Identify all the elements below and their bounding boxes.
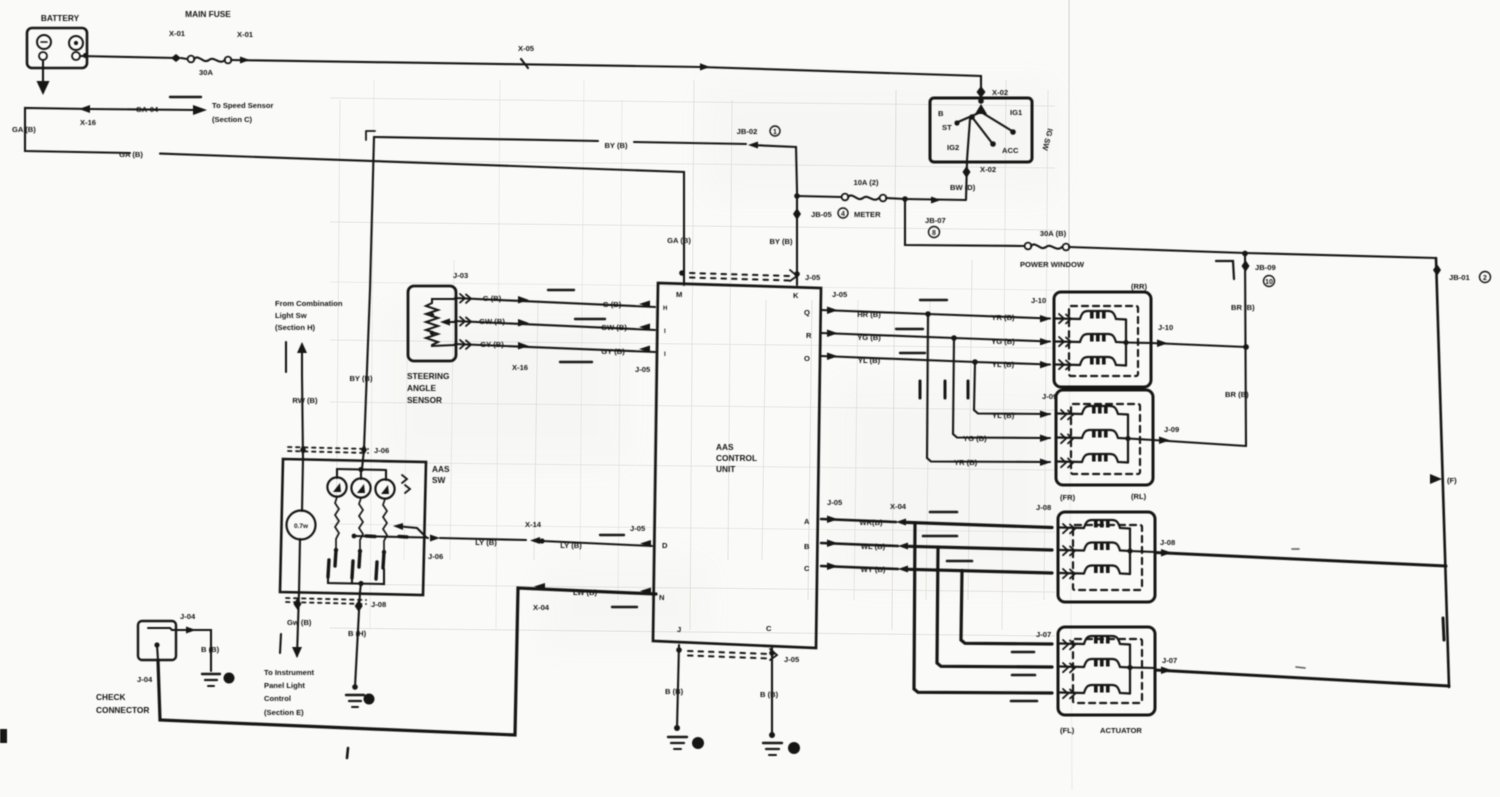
- AAS control unit: [630, 270, 848, 664]
- connector X-02 diamond at switch top: [977, 86, 1009, 98]
- wire B (B) ground left under control unit: [665, 645, 704, 749]
- svg-text:4: 4: [841, 211, 845, 218]
- svg-text:WR(B): WR(B): [859, 518, 883, 527]
- svg-text:HR (B): HR (B): [857, 310, 881, 319]
- junction arrow on B+ wire: [700, 63, 710, 70]
- main fuse MAIN FUSE 30A: [169, 9, 254, 77]
- wire junction to BW: [905, 197, 966, 238]
- svg-text:J-03: J-03: [453, 271, 468, 280]
- wire J-09 exit: [1153, 425, 1246, 446]
- svg-text:To Instrument: To Instrument: [264, 668, 315, 677]
- crease ticks: [920, 381, 968, 398]
- svg-text:STEERING: STEERING: [407, 371, 449, 381]
- svg-text:J-05: J-05: [832, 290, 848, 299]
- svg-text:AAS: AAS: [432, 464, 450, 474]
- svg-text:10: 10: [1265, 279, 1273, 286]
- wire right-edge vertical down: [1430, 258, 1457, 687]
- node From Combination Light Sw: [275, 299, 343, 459]
- svg-text:K: K: [793, 291, 799, 300]
- svg-text:IG1: IG1: [1010, 108, 1023, 117]
- svg-text:1: 1: [773, 129, 777, 136]
- wires sensor to control unit G/GW/GY: [455, 290, 655, 374]
- svg-text:J-05: J-05: [784, 655, 800, 664]
- svg-text:BY (B): BY (B): [604, 141, 628, 150]
- svg-text:X-16: X-16: [80, 118, 96, 127]
- svg-text:Q: Q: [804, 308, 810, 317]
- indicator lamps: [362, 449, 364, 469]
- svg-text:YR (B): YR (B): [991, 313, 1015, 322]
- svg-text:J: J: [677, 625, 681, 634]
- svg-text:LW (B): LW (B): [573, 588, 598, 597]
- svg-text:X-04: X-04: [533, 603, 550, 612]
- wire J-07 exit (bold): [1155, 656, 1449, 686]
- svg-text:JB-07: JB-07: [925, 216, 946, 225]
- wire main B+ run to ignition switch: [231, 60, 981, 97]
- wire YL cross-down to RL: [974, 362, 1051, 420]
- node speed-sensor branch: [79, 97, 274, 127]
- wire YL (B) pin O: [821, 353, 1051, 370]
- svg-text:WL (B): WL (B): [861, 542, 886, 551]
- svg-text:YG (B): YG (B): [963, 434, 987, 443]
- svg-text:M: M: [676, 290, 682, 299]
- svg-text:J-05: J-05: [827, 498, 843, 507]
- svg-text:MAIN FUSE: MAIN FUSE: [185, 9, 231, 19]
- svg-text:METER: METER: [854, 210, 881, 219]
- svg-text:J-08: J-08: [1160, 538, 1175, 547]
- wire WL (B) pin B (bold): [821, 536, 1052, 667]
- svg-text:CONTROL: CONTROL: [716, 453, 757, 463]
- svg-text:YG (B): YG (B): [991, 337, 1015, 346]
- battery negative down arrow: [37, 61, 50, 95]
- wire GW (B) to instrument panel light: [264, 592, 315, 717]
- wire power window run to right edge: [1069, 247, 1436, 258]
- wire RW (B) down to AAS sw: [302, 375, 303, 459]
- wire BY vertical to control unit pin K: [769, 190, 801, 285]
- svg-text:(Section H): (Section H): [275, 323, 316, 332]
- svg-text:N: N: [659, 593, 664, 602]
- actuator FL box: [1036, 627, 1155, 735]
- svg-text:8: 8: [932, 230, 936, 237]
- svg-text:GA (B): GA (B): [667, 236, 691, 245]
- wire GA (B) from left edge: [12, 108, 691, 285]
- svg-text:SW: SW: [432, 475, 446, 485]
- svg-text:(Section C): (Section C): [212, 115, 253, 124]
- lamp 0.7w: [287, 511, 316, 540]
- svg-text:J-04: J-04: [180, 612, 196, 621]
- svg-text:BW (D): BW (D): [950, 183, 976, 192]
- svg-text:C: C: [766, 624, 772, 633]
- wire B (B) AAS sw ground: [346, 592, 375, 707]
- svg-text:(FR): (FR): [1060, 493, 1076, 502]
- svg-text:2: 2: [1483, 275, 1487, 282]
- svg-text:X-16: X-16: [512, 363, 528, 372]
- interior wire to pin D: [354, 536, 426, 538]
- wire WR (B) pin A (bold): [821, 502, 1052, 693]
- svg-text:ACTUATOR: ACTUATOR: [1100, 726, 1142, 735]
- svg-text:G (B): G (B): [483, 294, 502, 303]
- svg-text:(Section E): (Section E): [264, 708, 304, 717]
- svg-text:Control: Control: [264, 694, 291, 703]
- svg-text:AAS: AAS: [716, 442, 734, 452]
- check connector: [96, 612, 235, 715]
- svg-text:X-01: X-01: [237, 30, 254, 39]
- svg-text:YG (B): YG (B): [857, 333, 881, 342]
- svg-text:X-05: X-05: [518, 44, 535, 53]
- svg-text:(F): (F): [1447, 476, 1457, 485]
- svg-text:30A: 30A: [199, 68, 213, 77]
- svg-text:10A (2): 10A (2): [853, 178, 879, 187]
- svg-text:JB-09: JB-09: [1255, 263, 1276, 272]
- svg-text:ANGLE: ANGLE: [407, 383, 437, 393]
- svg-text:B (B): B (B): [665, 687, 684, 696]
- AAS switch box: [280, 444, 450, 609]
- fuse 10A (2) METER: [797, 178, 908, 219]
- wire WY (B) pin C (bold): [821, 561, 1052, 644]
- left edge artifact: [0, 729, 7, 743]
- svg-text:(RL): (RL): [1131, 492, 1147, 501]
- svg-text:J-10: J-10: [1158, 323, 1173, 332]
- svg-text:C: C: [804, 564, 810, 573]
- svg-text:Gw (B): Gw (B): [287, 618, 312, 627]
- svg-text:G (B): G (B): [603, 300, 622, 309]
- connector J-05 dashed top: [690, 273, 790, 281]
- svg-text:JB-05: JB-05: [811, 210, 832, 219]
- svg-text:J-06: J-06: [428, 552, 443, 561]
- svg-text:JB-01: JB-01: [1449, 273, 1470, 282]
- svg-text:J-07: J-07: [1036, 630, 1051, 639]
- wire down to power window fuse: [905, 199, 1024, 246]
- svg-text:UNIT: UNIT: [716, 464, 735, 474]
- wire BR (B) vertical: [1225, 253, 1255, 446]
- svg-text:J-05: J-05: [805, 273, 821, 282]
- svg-text:GA (B): GA (B): [119, 150, 143, 159]
- svg-text:J-09: J-09: [1164, 425, 1179, 434]
- svg-text:J-05: J-05: [635, 365, 651, 374]
- connector J-08 dashed bottom: [286, 598, 366, 604]
- svg-text:J-05: J-05: [630, 524, 646, 533]
- svg-text:RW (B): RW (B): [292, 396, 318, 405]
- svg-text:30A (B): 30A (B): [1040, 229, 1067, 238]
- svg-text:X-04: X-04: [890, 502, 907, 511]
- svg-text:YR (B): YR (B): [954, 458, 978, 467]
- node BR branch: [1216, 251, 1276, 287]
- svg-text:BY (B): BY (B): [349, 374, 373, 383]
- svg-text:J-07: J-07: [1162, 656, 1177, 665]
- svg-text:BR (B): BR (B): [1225, 390, 1249, 399]
- svg-text:J-04: J-04: [137, 675, 153, 684]
- connector J-06 dashed top: [288, 447, 368, 453]
- svg-text:BATTERY: BATTERY: [41, 13, 80, 23]
- svg-text:YL (B): YL (B): [992, 360, 1015, 369]
- wire BY (B) from JB-02 to AAS sw and control unit: [349, 126, 797, 449]
- svg-text:O: O: [804, 354, 810, 363]
- crease dashes near FL box: [1011, 652, 1037, 701]
- bottom bus: [328, 569, 384, 584]
- ignition switch IG SW: [930, 98, 1055, 162]
- svg-text:CHECK: CHECK: [96, 692, 126, 702]
- svg-text:GW (B): GW (B): [479, 317, 505, 326]
- wire YR cross-down to RL: [927, 314, 1051, 467]
- coils: [1056, 311, 1126, 320]
- svg-text:J-09: J-09: [1042, 392, 1057, 401]
- ground: [668, 736, 687, 738]
- svg-text:BY (B): BY (B): [769, 237, 793, 246]
- svg-text:SENSOR: SENSOR: [407, 395, 442, 405]
- wire battery to main fuse: [80, 56, 176, 58]
- wire YR (B) pin Q to RR actuator: [821, 300, 1051, 322]
- svg-text:GA-04: GA-04: [136, 105, 159, 114]
- svg-text:B (H): B (H): [348, 629, 367, 638]
- svg-text:X-02: X-02: [992, 88, 1008, 97]
- svg-text:IG2: IG2: [947, 143, 959, 152]
- wire J-10 exit: [1151, 323, 1246, 347]
- svg-text:GY (B): GY (B): [601, 347, 625, 356]
- svg-text:YL (B): YL (B): [858, 356, 881, 365]
- svg-text:ST: ST: [942, 123, 952, 132]
- connector J-05 dashed bottom: [688, 651, 770, 659]
- svg-text:JB-02: JB-02: [737, 127, 758, 136]
- svg-text:From Combination: From Combination: [275, 299, 343, 308]
- svg-text:To Speed Sensor: To Speed Sensor: [212, 101, 274, 110]
- svg-text:H: H: [663, 306, 667, 312]
- svg-text:A: A: [804, 517, 810, 526]
- wire YG (B) pin R: [821, 329, 1051, 346]
- switch contacts: [328, 550, 384, 579]
- wire LW (B) pin N run (bold): [158, 588, 656, 735]
- svg-text:J-06: J-06: [374, 446, 389, 455]
- steering angle sensor: [407, 271, 468, 405]
- squiggles down to switches: [335, 497, 339, 548]
- svg-text:B (B): B (B): [201, 645, 220, 654]
- actuator RL box: [1042, 390, 1153, 501]
- svg-text:LY (B): LY (B): [560, 541, 582, 550]
- svg-text:GW (B): GW (B): [601, 323, 627, 332]
- wire YG cross-down to RL: [953, 338, 1051, 443]
- wire B (B) ground right under control unit: [760, 648, 800, 755]
- connector X-05 tick: [518, 44, 535, 68]
- svg-text:X-01: X-01: [169, 29, 186, 38]
- svg-text:(FL): (FL): [1060, 726, 1075, 735]
- svg-text:J-10: J-10: [1031, 296, 1046, 305]
- svg-text:GY (B): GY (B): [480, 340, 504, 349]
- svg-text:YL (B): YL (B): [992, 411, 1015, 420]
- wire BW (D) from switch: [950, 162, 996, 199]
- faint scan artifacts: [1069, 0, 1072, 790]
- chevrons at sensor connector: [460, 294, 471, 303]
- svg-text:X-14: X-14: [525, 520, 542, 529]
- svg-text:BR (B): BR (B): [1231, 303, 1255, 312]
- svg-text:Panel Light: Panel Light: [264, 681, 305, 690]
- svg-text:X-02: X-02: [980, 165, 996, 174]
- svg-text:B: B: [938, 109, 944, 118]
- wire J-08 exit (bold): [1155, 538, 1446, 566]
- wire LY (B) pin D run: [426, 520, 652, 561]
- actuator RR box: [1031, 282, 1151, 387]
- svg-text:(RR): (RR): [1131, 282, 1147, 291]
- battery BATTERY: [27, 13, 88, 68]
- svg-text:D: D: [662, 541, 668, 550]
- svg-text:POWER WINDOW: POWER WINDOW: [1020, 260, 1085, 269]
- svg-text:B: B: [804, 542, 810, 551]
- node JB-01 at right: [1433, 264, 1491, 283]
- resistor zigzag: [426, 299, 455, 346]
- svg-text:WY (B): WY (B): [861, 565, 886, 574]
- svg-text:LY (B): LY (B): [475, 538, 497, 547]
- fuse 30A (B) POWER WINDOW: [1020, 229, 1085, 269]
- svg-text:J-08: J-08: [371, 600, 386, 609]
- svg-text:Light Sw: Light Sw: [275, 311, 307, 320]
- svg-text:CONNECTOR: CONNECTOR: [96, 705, 149, 715]
- svg-text:B (B): B (B): [760, 690, 779, 699]
- svg-text:J-08: J-08: [1036, 503, 1051, 512]
- svg-text:0.7w: 0.7w: [294, 523, 309, 530]
- svg-text:ACC: ACC: [1002, 146, 1019, 155]
- actuator FR box: [1036, 493, 1155, 602]
- svg-text:R: R: [806, 331, 812, 340]
